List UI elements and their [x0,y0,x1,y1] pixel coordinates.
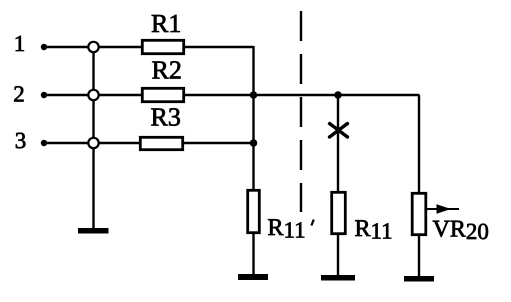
svg-text:3: 3 [15,128,27,153]
svg-text:2: 2 [13,82,25,107]
svg-text:R11: R11 [268,215,306,243]
svg-text:VR20: VR20 [433,217,489,245]
svg-text:R2: R2 [152,56,182,85]
svg-text:1: 1 [14,31,26,56]
svg-text:R11: R11 [355,216,393,244]
svg-text:R1: R1 [151,9,181,38]
svg-text:R3: R3 [151,103,181,132]
